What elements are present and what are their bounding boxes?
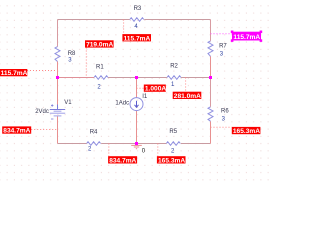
svg-text:R3: R3 [134,6,142,12]
leader line for 719.0mA label [85,48,87,78]
current label 834.7mA at V1 [2,126,31,134]
leader line for right 165.3mA label [211,126,232,128]
wire middle rail from R2 right pin to node C [181,77,211,79]
current label 165.3mA at R6 [232,127,261,135]
wire from I1 bottom down to ground junction [136,111,138,144]
current label 719.0mA [85,40,114,48]
voltage source V1 [35,100,72,119]
svg-text:834.7mA: 834.7mA [3,128,30,135]
svg-text:R4: R4 [90,130,98,136]
wire bottom rail from R4 to ground junction and R5 [101,143,166,145]
svg-text:R7: R7 [219,44,227,50]
resistor R2 [167,64,181,89]
ground node junction dot [135,142,138,145]
wire from R8 bottom to node A [57,62,59,78]
wire from node C to R6 top [210,78,212,107]
svg-text:1Adc: 1Adc [115,101,129,107]
svg-text:R8: R8 [68,51,76,57]
svg-text:834.7mA: 834.7mA [109,157,136,164]
svg-text:R6: R6 [221,109,229,115]
ground 0 [131,144,146,155]
resistor R5 [166,129,180,154]
wire from R6 bottom to bottom-right corner [210,121,212,143]
svg-text:719.0mA: 719.0mA [86,42,113,49]
resistor R6 [208,107,229,123]
svg-text:R2: R2 [170,64,178,70]
current label 834.7mA at R4 [108,156,137,164]
svg-text:115.7mA: 115.7mA [124,35,151,42]
leader line for 115.7mA label under R3 [123,20,125,35]
wire top rail from top-left corner to R3 left pin [58,19,130,21]
svg-text:115.7mA: 115.7mA [1,70,28,77]
wire from V1 minus pin to bottom-left corner [57,116,59,143]
wire top rail from R3 right pin to top-right corner [144,19,210,21]
svg-text:165.3mA: 165.3mA [233,128,260,135]
leader line for 1.000A label [137,87,144,89]
resistor R4 [87,130,101,153]
current label 115.7mA at R3 [122,34,151,42]
leader line for bottom 165.3mA label [157,144,159,157]
svg-text:281.0mA: 281.0mA [174,93,201,100]
current label 1.000A at I1 [144,85,167,93]
leader line for left 115.7mA label [27,70,58,72]
current label 165.3mA at R5 [157,156,186,164]
wire from R7 bottom to node C [210,56,212,77]
leader line for bottom 834.7mA label [108,144,110,157]
svg-text:I1: I1 [142,94,148,100]
svg-text:115.7mA: 115.7mA [233,34,260,41]
svg-text:R5: R5 [169,129,177,135]
svg-text:V1: V1 [64,100,72,106]
current source I1 [115,94,147,111]
wire from node A down to V1 plus pin [57,78,59,110]
leader line for 281.0mA label [185,78,187,92]
current label 281.0mA at R2 [173,92,202,100]
leader line for selected 115.7mA label at R7 [211,33,233,35]
node A junction dot [56,76,59,79]
wire middle rail from node B to R2 left pin [137,77,168,79]
svg-text:1.000A: 1.000A [145,86,167,93]
wire bottom rail from bottom-left corner to R4 [58,143,87,145]
resistor R3 [130,6,144,30]
wire bottom rail from R5 to bottom-right corner [181,143,211,145]
current label 115.7mA at R7 (selected, magenta) [231,31,262,42]
wire middle rail from R1 right pin to node B [108,77,137,79]
resistor R1 [94,64,108,90]
current label 115.7mA at node A [0,69,28,77]
resistor R7 [208,41,227,57]
svg-text:2Vdc: 2Vdc [35,109,49,115]
wire left branch vertical from top-left corner down to R8 [57,20,59,47]
svg-text:R1: R1 [96,64,104,70]
node C junction dot [209,76,212,79]
wire middle rail from node A to R1 left pin [58,77,95,79]
svg-text:165.3mA: 165.3mA [158,157,185,164]
resistor R8 [55,47,76,64]
wire right branch from top-right corner to R7 [210,20,212,41]
leader line for left 834.7mA label [31,129,57,131]
wire from node B down to I1 top [136,78,138,98]
node B junction dot [135,76,138,79]
